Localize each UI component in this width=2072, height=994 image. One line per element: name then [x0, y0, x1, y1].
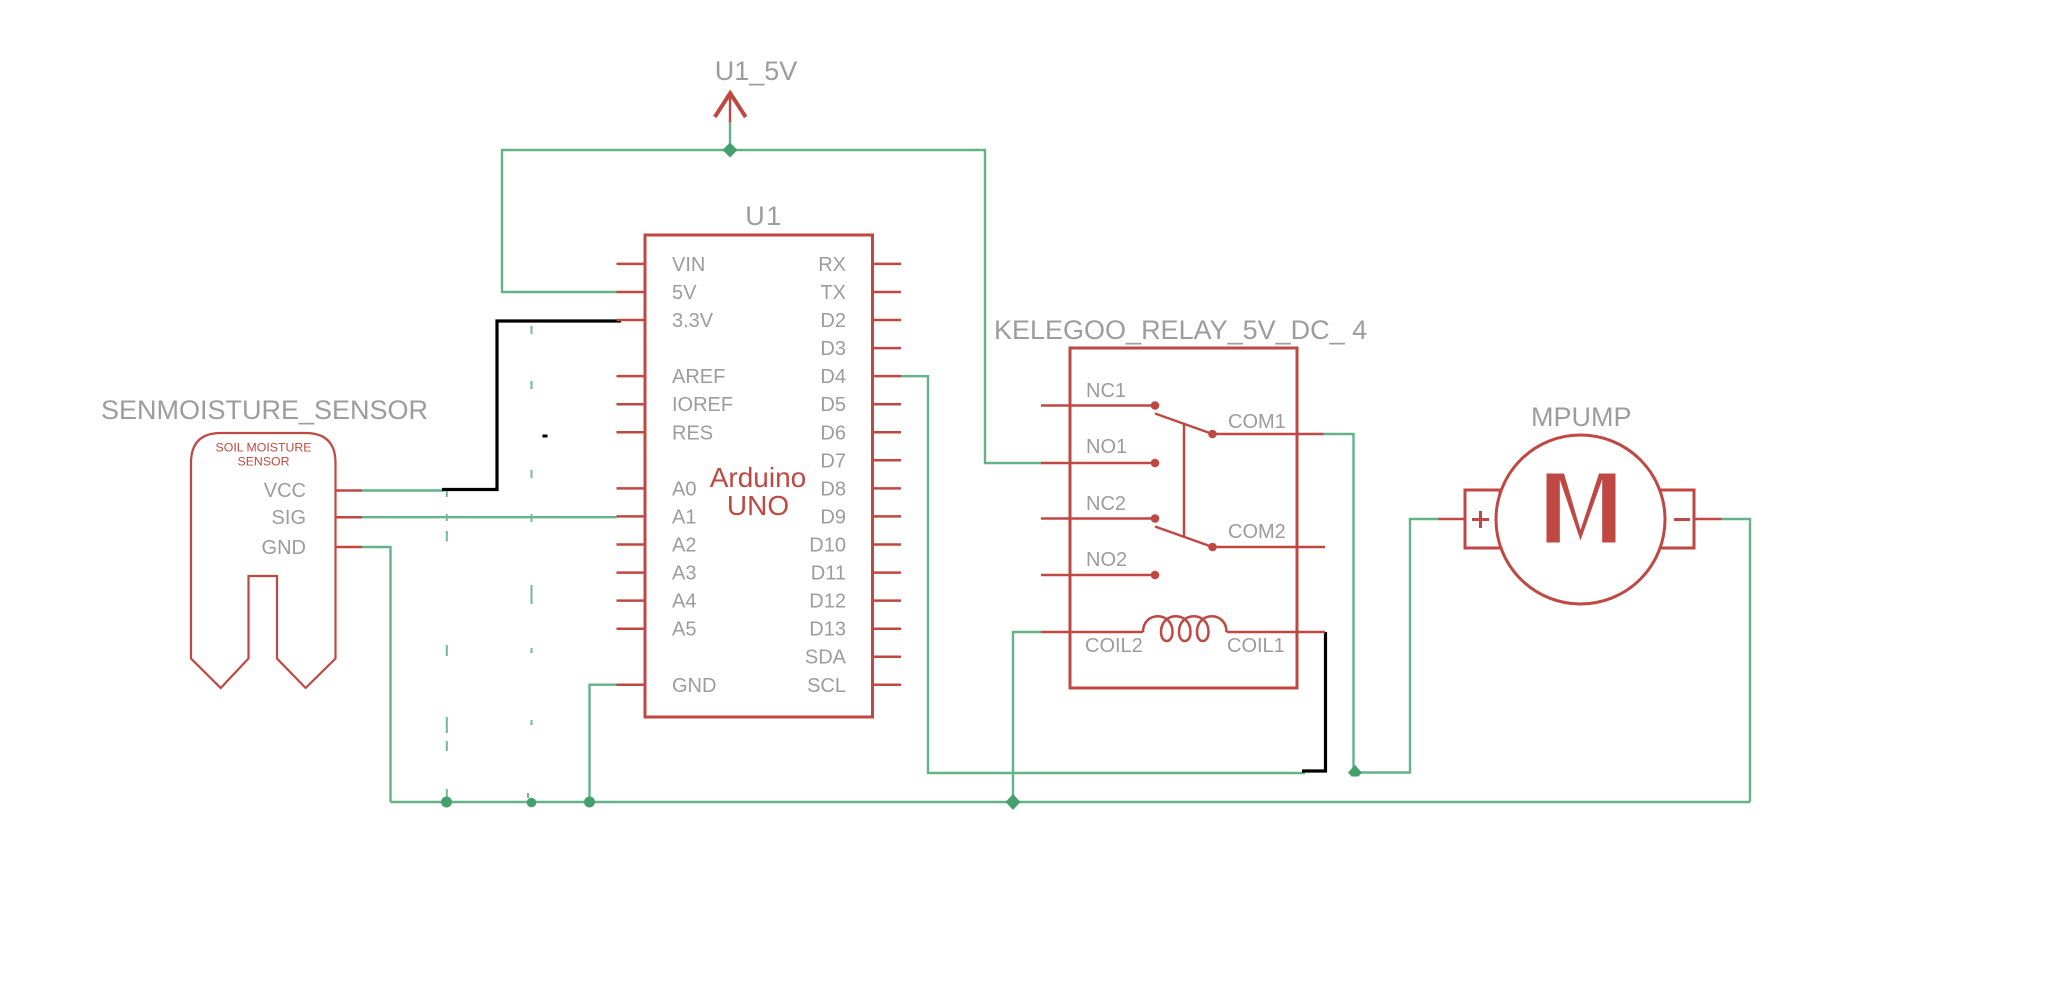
svg-text:SENSOR: SENSOR: [238, 455, 290, 469]
svg-text:D11: D11: [811, 563, 846, 585]
junction dot dashed A on bus: [441, 797, 452, 808]
wire power stem: [729, 122, 731, 150]
svg-text:5V: 5V: [672, 282, 697, 304]
arduino right pin stubs: [873, 264, 902, 685]
relay switch armature 1: [1155, 414, 1213, 435]
svg-text:U1_5V: U1_5V: [715, 56, 798, 86]
relay contact dot NO2: [1151, 571, 1160, 580]
wire COIL2 to bus: [1013, 632, 1041, 802]
svg-text:D3: D3: [820, 338, 846, 360]
relay pin COM2: [1213, 546, 1326, 549]
svg-text:SOIL MOISTURE: SOIL MOISTURE: [216, 441, 312, 455]
relay pin NC1: [1041, 404, 1155, 407]
motor minus terminal box: [1659, 490, 1694, 548]
svg-text:D13: D13: [809, 619, 846, 641]
relay coil: [1143, 616, 1227, 641]
wire sensor VCC green segment: [362, 489, 444, 491]
svg-text:A1: A1: [672, 506, 696, 528]
svg-text:COIL1: COIL1: [1227, 635, 1285, 657]
junction diamond COIL2 on bus: [1006, 794, 1021, 810]
svg-text:GND: GND: [262, 537, 306, 559]
svg-text:VCC: VCC: [264, 480, 306, 502]
sensor pin SIG stub: [336, 516, 363, 519]
svg-text:UNO: UNO: [727, 490, 789, 521]
junction dot dashed B on bus: [527, 798, 537, 808]
svg-text:D8: D8: [820, 478, 846, 500]
svg-text:NO2: NO2: [1086, 549, 1127, 571]
junction diamond COM1 corner: [1348, 765, 1362, 777]
relay coil leads: [1041, 631, 1325, 634]
svg-text:D6: D6: [820, 422, 846, 444]
relay contact dot NC2: [1151, 514, 1160, 523]
stray black tick: [543, 435, 548, 438]
svg-text:U1: U1: [745, 201, 783, 231]
svg-text:A5: A5: [672, 619, 696, 641]
svg-text:AREF: AREF: [672, 366, 725, 388]
svg-text:D7: D7: [820, 450, 846, 472]
svg-text:NC2: NC2: [1086, 493, 1126, 515]
wire arduino GND down: [590, 685, 617, 802]
arduino left pin labels: [672, 254, 733, 697]
dashed net line B: [528, 326, 532, 798]
wire black VCC to 3.3V: [442, 321, 621, 490]
svg-text:D2: D2: [820, 310, 846, 332]
svg-text:VIN: VIN: [672, 254, 705, 276]
sensor pin VCC stub: [336, 489, 363, 492]
relay contact dot COM1: [1208, 430, 1217, 439]
relay pin NO2: [1041, 574, 1155, 577]
relay contact dot NO1: [1151, 459, 1160, 468]
arduino left pin stubs: [617, 264, 646, 685]
wire ground bus: [391, 801, 1751, 803]
svg-text:A2: A2: [672, 535, 696, 557]
svg-text:A0: A0: [672, 478, 696, 500]
svg-text:RES: RES: [672, 422, 713, 444]
svg-text:A4: A4: [672, 591, 696, 613]
motor pin plus stub: [1439, 518, 1466, 521]
motor M letter: [1547, 474, 1616, 543]
svg-text:SDA: SDA: [805, 647, 847, 669]
svg-text:D10: D10: [809, 535, 846, 557]
svg-text:Arduino: Arduino: [710, 462, 807, 493]
svg-text:COIL2: COIL2: [1085, 635, 1143, 657]
wire COM1 to motor plus: [1324, 434, 1439, 773]
svg-text:RX: RX: [818, 254, 846, 276]
svg-text:SIG: SIG: [272, 507, 306, 529]
power symbol U1_5V: [715, 93, 746, 123]
motor plus sign: [1472, 511, 1489, 528]
motor pin minus stub: [1694, 518, 1722, 521]
svg-text:IOREF: IOREF: [672, 394, 733, 416]
motor plus terminal box: [1465, 490, 1500, 548]
wire motor minus to bus: [1722, 519, 1751, 802]
svg-text:3.3V: 3.3V: [672, 310, 714, 332]
svg-text:GND: GND: [672, 675, 716, 697]
svg-text:SCL: SCL: [807, 675, 846, 697]
wire sensor GND down: [362, 547, 391, 802]
relay contact dot COM2: [1208, 543, 1217, 552]
svg-text:COM2: COM2: [1228, 521, 1286, 543]
relay pin NC2: [1041, 517, 1155, 520]
junction dot arduino GND on bus: [584, 797, 595, 808]
wire sensor SIG to A1: [362, 516, 617, 518]
relay pin NO1: [1041, 462, 1155, 465]
wire black COIL1: [1302, 632, 1326, 771]
svg-text:SENMOISTURE_SENSOR: SENMOISTURE_SENSOR: [101, 395, 428, 425]
sensor SENMOISTURE_SENSOR outline: [191, 433, 336, 688]
svg-text:D9: D9: [820, 506, 846, 528]
svg-text:TX: TX: [820, 282, 846, 304]
svg-text:D4: D4: [820, 366, 846, 388]
svg-text:D12: D12: [809, 591, 846, 613]
wire 5V net: 5V pin to top rail to relay NO1: [502, 150, 1042, 463]
svg-text:MPUMP: MPUMP: [1531, 402, 1632, 432]
arduino right pin labels: [805, 254, 847, 697]
arduino U1 body: [645, 235, 873, 717]
dashed net line A: [446, 491, 448, 798]
relay body: [1070, 348, 1297, 688]
wire D4 net: [901, 376, 1305, 773]
svg-text:KELEGOO_RELAY_5V_DC_ 4: KELEGOO_RELAY_5V_DC_ 4: [994, 315, 1367, 345]
junction diamond power/top rail: [723, 143, 738, 158]
motor minus sign: [1674, 518, 1690, 521]
relay switch link: [1183, 424, 1186, 537]
svg-text:A3: A3: [672, 563, 696, 585]
svg-text:NO1: NO1: [1086, 436, 1127, 458]
svg-text:COM1: COM1: [1228, 411, 1286, 433]
sensor pin GND stub: [336, 546, 363, 549]
relay contact dot NC1: [1151, 401, 1160, 410]
relay switch armature 2: [1155, 527, 1213, 548]
svg-text:D5: D5: [820, 394, 846, 416]
motor body circle: [1496, 435, 1665, 604]
relay pin COM1: [1213, 433, 1324, 436]
svg-text:NC1: NC1: [1086, 380, 1126, 402]
